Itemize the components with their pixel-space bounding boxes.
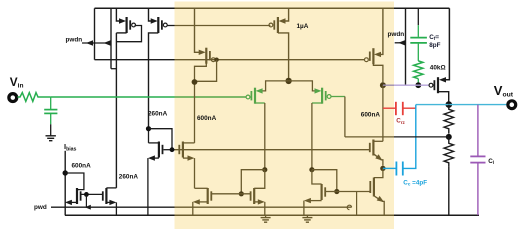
svg-text:pwdn: pwdn xyxy=(388,31,405,38)
node mirror gate junction xyxy=(239,191,244,196)
wire pmos mirror gate bus xyxy=(95,59,175,61)
wire pmos mirror gate bus right part xyxy=(217,59,365,61)
wire M4 drain up to 260nA pmos xyxy=(194,85,196,143)
wire M2 drain to 260nA line xyxy=(106,187,116,189)
wire M7 drain up xyxy=(312,170,322,184)
transistor Q7 600nA pmos right xyxy=(372,48,374,64)
wire M7 gate lead xyxy=(325,191,337,193)
wire nmos cascode gate bus xyxy=(164,149,175,151)
wire M7 to M8 gate xyxy=(337,191,370,193)
svg-text:600nA: 600nA xyxy=(197,115,217,122)
wire M2 source to rail xyxy=(115,202,117,215)
wire gate drive lavender xyxy=(383,84,394,86)
transistor M1 bias mirror diode xyxy=(76,188,78,204)
svg-text:Cc =4pF: Cc =4pF xyxy=(403,179,427,186)
wire M8 source arrow to node xyxy=(374,154,383,166)
wire Q7 source from rail xyxy=(380,8,383,54)
wire Cc left lead xyxy=(383,167,396,169)
wire Q5 drain down (green then dark) xyxy=(255,102,265,104)
svg-text:1µA: 1µA xyxy=(297,23,309,30)
wire M8 drain stub xyxy=(373,140,383,142)
wire pwdn right with arrow xyxy=(395,42,406,44)
transistor Q1 pwdn switch left xyxy=(125,17,127,33)
wire Q1 gate diode loop xyxy=(116,26,141,42)
wire Q8 source from rail xyxy=(446,8,450,80)
wire M1 M2 gate tie xyxy=(81,193,103,195)
transistor Q3 260nA pmos diode xyxy=(205,48,207,64)
transistor M7 second stage diode xyxy=(321,184,323,200)
wire Q3 drain down xyxy=(195,63,207,82)
wire Cl to rail xyxy=(477,163,479,215)
svg-text:260nA: 260nA xyxy=(148,111,168,118)
wire top supply rail xyxy=(95,7,175,9)
wire second stage spine upper xyxy=(382,85,384,141)
wire left drain to mirror gates xyxy=(241,170,264,194)
svg-text:pwdn: pwdn xyxy=(66,37,83,44)
wire Q7 drain down xyxy=(373,64,383,82)
capacitor Crz (red) xyxy=(383,107,396,109)
wire Q4 source from rail xyxy=(285,8,289,21)
wire M4 source down xyxy=(194,158,196,188)
node gate drive junction xyxy=(415,82,421,88)
transistor M4 cascode (in highlight) xyxy=(182,142,184,158)
wire Cl riser purple xyxy=(477,105,479,156)
wire Q3 source from rail xyxy=(195,8,200,52)
svg-text:600nA: 600nA xyxy=(361,111,381,118)
wire tail to right diff source xyxy=(289,81,315,91)
wire pwdn right vertical xyxy=(405,8,407,85)
wire pwdn jog xyxy=(111,68,116,70)
wire divider feedback line xyxy=(345,136,394,138)
node M7 gate junction xyxy=(334,189,339,194)
resistor R1 output divider top xyxy=(444,105,453,134)
wire M3 diode tie xyxy=(149,129,173,150)
capacitor Cc xyxy=(402,162,404,176)
wire gate tie to pwd xyxy=(85,194,87,207)
wire M5 drain from cascode xyxy=(195,187,208,189)
node Q3 gate junction xyxy=(214,58,218,62)
wire Q1 source from rail xyxy=(116,8,120,21)
resistor R2 output divider bottom xyxy=(444,137,453,166)
transistor Q2 pwdn switch right xyxy=(157,17,159,33)
wire M3 source to rail xyxy=(147,158,149,215)
svg-text:8pF: 8pF xyxy=(429,42,440,49)
wire Q6 gate to feedback corner (green) xyxy=(331,96,345,98)
node M3 gate junction xyxy=(170,147,175,152)
node divider junction xyxy=(446,134,452,140)
transistor M5 load mirror left xyxy=(207,188,209,204)
wire M7 source to rail xyxy=(303,201,305,216)
wire M3 drain from Q2 xyxy=(148,129,150,143)
svg-text:260nA: 260nA xyxy=(119,174,139,181)
node M3 diode junction xyxy=(146,126,151,131)
resistor input series (green) xyxy=(18,93,51,102)
wire Q4 drain to tail node xyxy=(278,33,289,81)
wire M5 source to rail xyxy=(192,202,194,215)
resistor 40k (green) xyxy=(414,61,423,79)
wire Q6 drain down xyxy=(312,102,322,104)
wire M6 drain tie xyxy=(254,170,265,189)
node Q3 drain junction xyxy=(192,79,198,85)
capacitor Cf (green) xyxy=(417,25,419,37)
node right diff drain junction xyxy=(309,167,314,172)
svg-text:pwd: pwd xyxy=(34,204,47,211)
capacitor input shunt (green) xyxy=(50,97,52,109)
wire tail to left diff source xyxy=(262,81,289,91)
node output junction xyxy=(446,101,453,108)
wire output line cyan xyxy=(416,104,509,106)
wire Q2 drain down xyxy=(149,33,159,129)
wire M6 source to rail xyxy=(264,202,266,215)
transistor M6 load mirror right (diode) xyxy=(253,188,255,204)
wire Ibias feed xyxy=(64,151,66,215)
svg-text:40kΩ: 40kΩ xyxy=(430,65,446,72)
wire Q1 drain down xyxy=(115,33,117,188)
transistor Q5 diff pair left (green) xyxy=(254,88,256,104)
ground second stage xyxy=(306,215,308,217)
pwd line end hook xyxy=(347,205,351,209)
wire rail drop left xyxy=(94,8,96,59)
transistor M8 second stage cascode xyxy=(372,140,374,156)
wire M5 M6 gate tie xyxy=(211,193,250,195)
transistor M2 bias mirror output xyxy=(105,188,107,204)
wire Ibias to M1 drain xyxy=(65,173,84,190)
wire pwd tie to rail xyxy=(356,192,358,216)
wire Q2 source from rail xyxy=(149,8,152,21)
wire Q8 drain to output xyxy=(438,92,449,102)
node Cc tap junction xyxy=(380,166,385,171)
ground first stage left xyxy=(265,215,267,217)
node tail junction xyxy=(285,78,291,84)
transistor Q4 1uA tail pmos xyxy=(277,17,279,33)
wire Vin line to diff pair gate (green) xyxy=(51,96,175,98)
node second stage top junction xyxy=(380,82,386,88)
node Ibias junction xyxy=(62,170,67,175)
wire feedback vertical xyxy=(344,97,346,137)
wire M9 drain stub xyxy=(374,168,383,177)
wire Cc riser cyan xyxy=(403,105,416,169)
wire Cf feed from rail xyxy=(417,8,419,25)
wire right drain to M7 gate loop xyxy=(312,170,337,192)
terminal Vout xyxy=(508,101,516,109)
transistor Q6 diff pair right (green) xyxy=(321,88,323,104)
wire pwd line xyxy=(51,206,175,208)
wire bottom ground rail xyxy=(65,214,175,216)
ground input cap xyxy=(50,124,52,135)
capacitor Cl xyxy=(470,155,485,157)
transistor M3 cascode diode (black) xyxy=(158,142,160,158)
wire pwdn vertical xyxy=(110,8,112,68)
node pwdn label wire with arrows xyxy=(82,42,111,44)
wire Q2 gate line to current mirror xyxy=(167,25,174,27)
wire Q3 diode tie xyxy=(195,60,217,82)
wire R2 to rail xyxy=(448,166,450,215)
node gate tie junction xyxy=(84,192,89,197)
transistor M9 output driver nmos xyxy=(373,178,375,197)
transistor Q8 output pmos xyxy=(437,77,439,93)
wire M9 source to rail xyxy=(375,196,385,215)
highlighted input+gain stage region xyxy=(175,2,395,230)
svg-text:600nA: 600nA xyxy=(72,162,92,169)
node left diff drain junction xyxy=(262,167,267,172)
terminal Vin xyxy=(9,94,17,102)
